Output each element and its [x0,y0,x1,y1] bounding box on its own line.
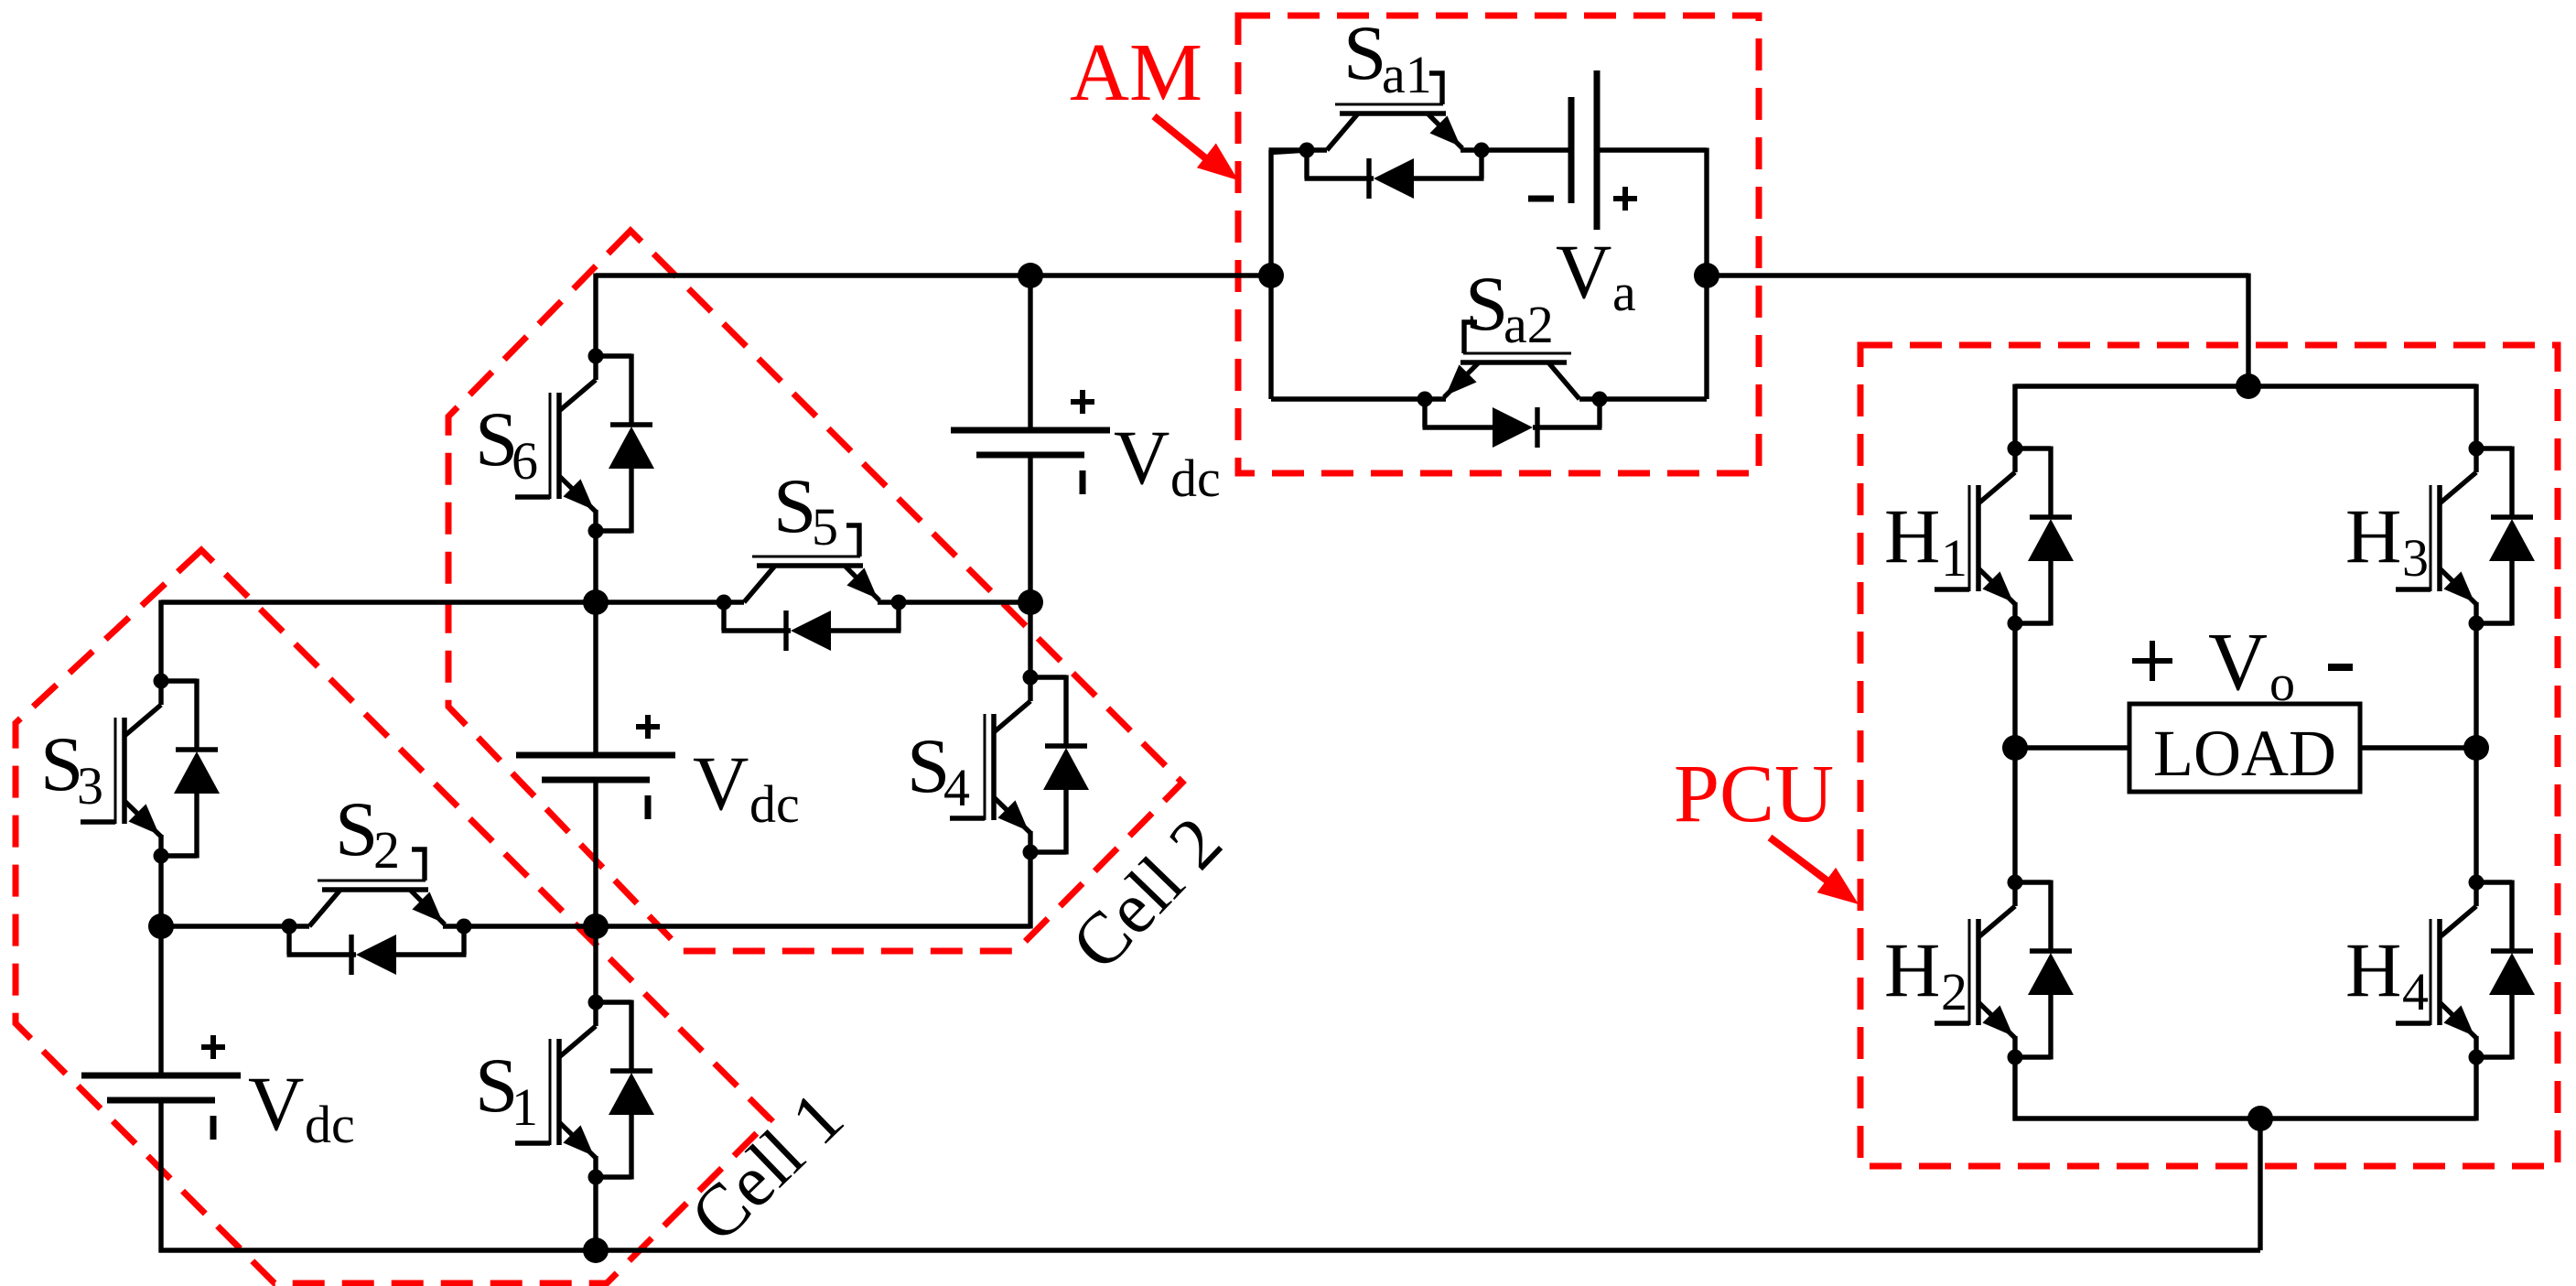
svg-text:2: 2 [1941,962,1967,1021]
svg-text:H: H [2345,493,2401,579]
svg-text:a: a [1612,263,1636,322]
svg-text:V: V [1114,415,1169,501]
svg-text:AM: AM [1070,27,1202,118]
svg-text:dc: dc [749,774,800,834]
svg-text:H: H [1884,927,1940,1013]
svg-text:6: 6 [512,431,538,491]
svg-text:S: S [1465,261,1508,347]
svg-text:V: V [693,740,749,827]
svg-text:LOAD: LOAD [2153,717,2336,790]
svg-text:3: 3 [2402,528,2429,588]
svg-text:S: S [335,786,378,872]
svg-text:2: 2 [373,820,400,880]
svg-text:V: V [1556,229,1611,315]
svg-text:dc: dc [1170,448,1221,508]
svg-text:5: 5 [812,497,838,557]
svg-text:H: H [1884,493,1940,579]
svg-text:V: V [2208,617,2268,708]
svg-text:4: 4 [2402,962,2429,1021]
svg-text:1: 1 [1941,528,1967,588]
svg-text:PCU: PCU [1674,749,1834,839]
svg-text:o: o [2269,655,2295,712]
svg-text:a2: a2 [1504,295,1554,354]
svg-text:1: 1 [512,1077,538,1137]
svg-text:a1: a1 [1382,45,1432,104]
svg-text:dc: dc [305,1095,355,1154]
svg-text:4: 4 [943,758,970,817]
svg-text:S: S [1343,10,1386,96]
svg-text:S: S [773,463,816,549]
svg-text:V: V [248,1061,304,1147]
svg-text:3: 3 [77,756,103,816]
svg-text:H: H [2345,927,2401,1013]
